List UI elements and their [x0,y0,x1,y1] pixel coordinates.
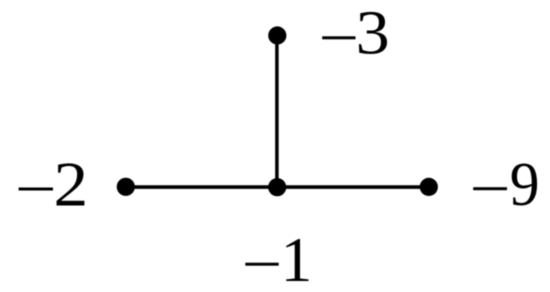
label -1 : minus bar [245,263,278,266]
node -1 (center dot) [268,178,286,196]
label -2 : minus bar [19,188,53,191]
label -9 : minus bar [473,187,507,190]
svg-text:3: 3 [356,0,390,68]
node -2 (left dot) [117,178,135,196]
svg-text:2: 2 [54,150,89,220]
node -3 (top dot) [268,26,286,44]
svg-text:1: 1 [281,224,313,292]
label -3 : minus bar [322,36,355,39]
wire: horizontal edge from node -2 to node -9 [126,185,429,189]
node -9 (right dot) [420,178,438,196]
svg-text:9: 9 [510,151,540,219]
wire: vertical edge from node -3 down to center node -1 [275,36,279,188]
